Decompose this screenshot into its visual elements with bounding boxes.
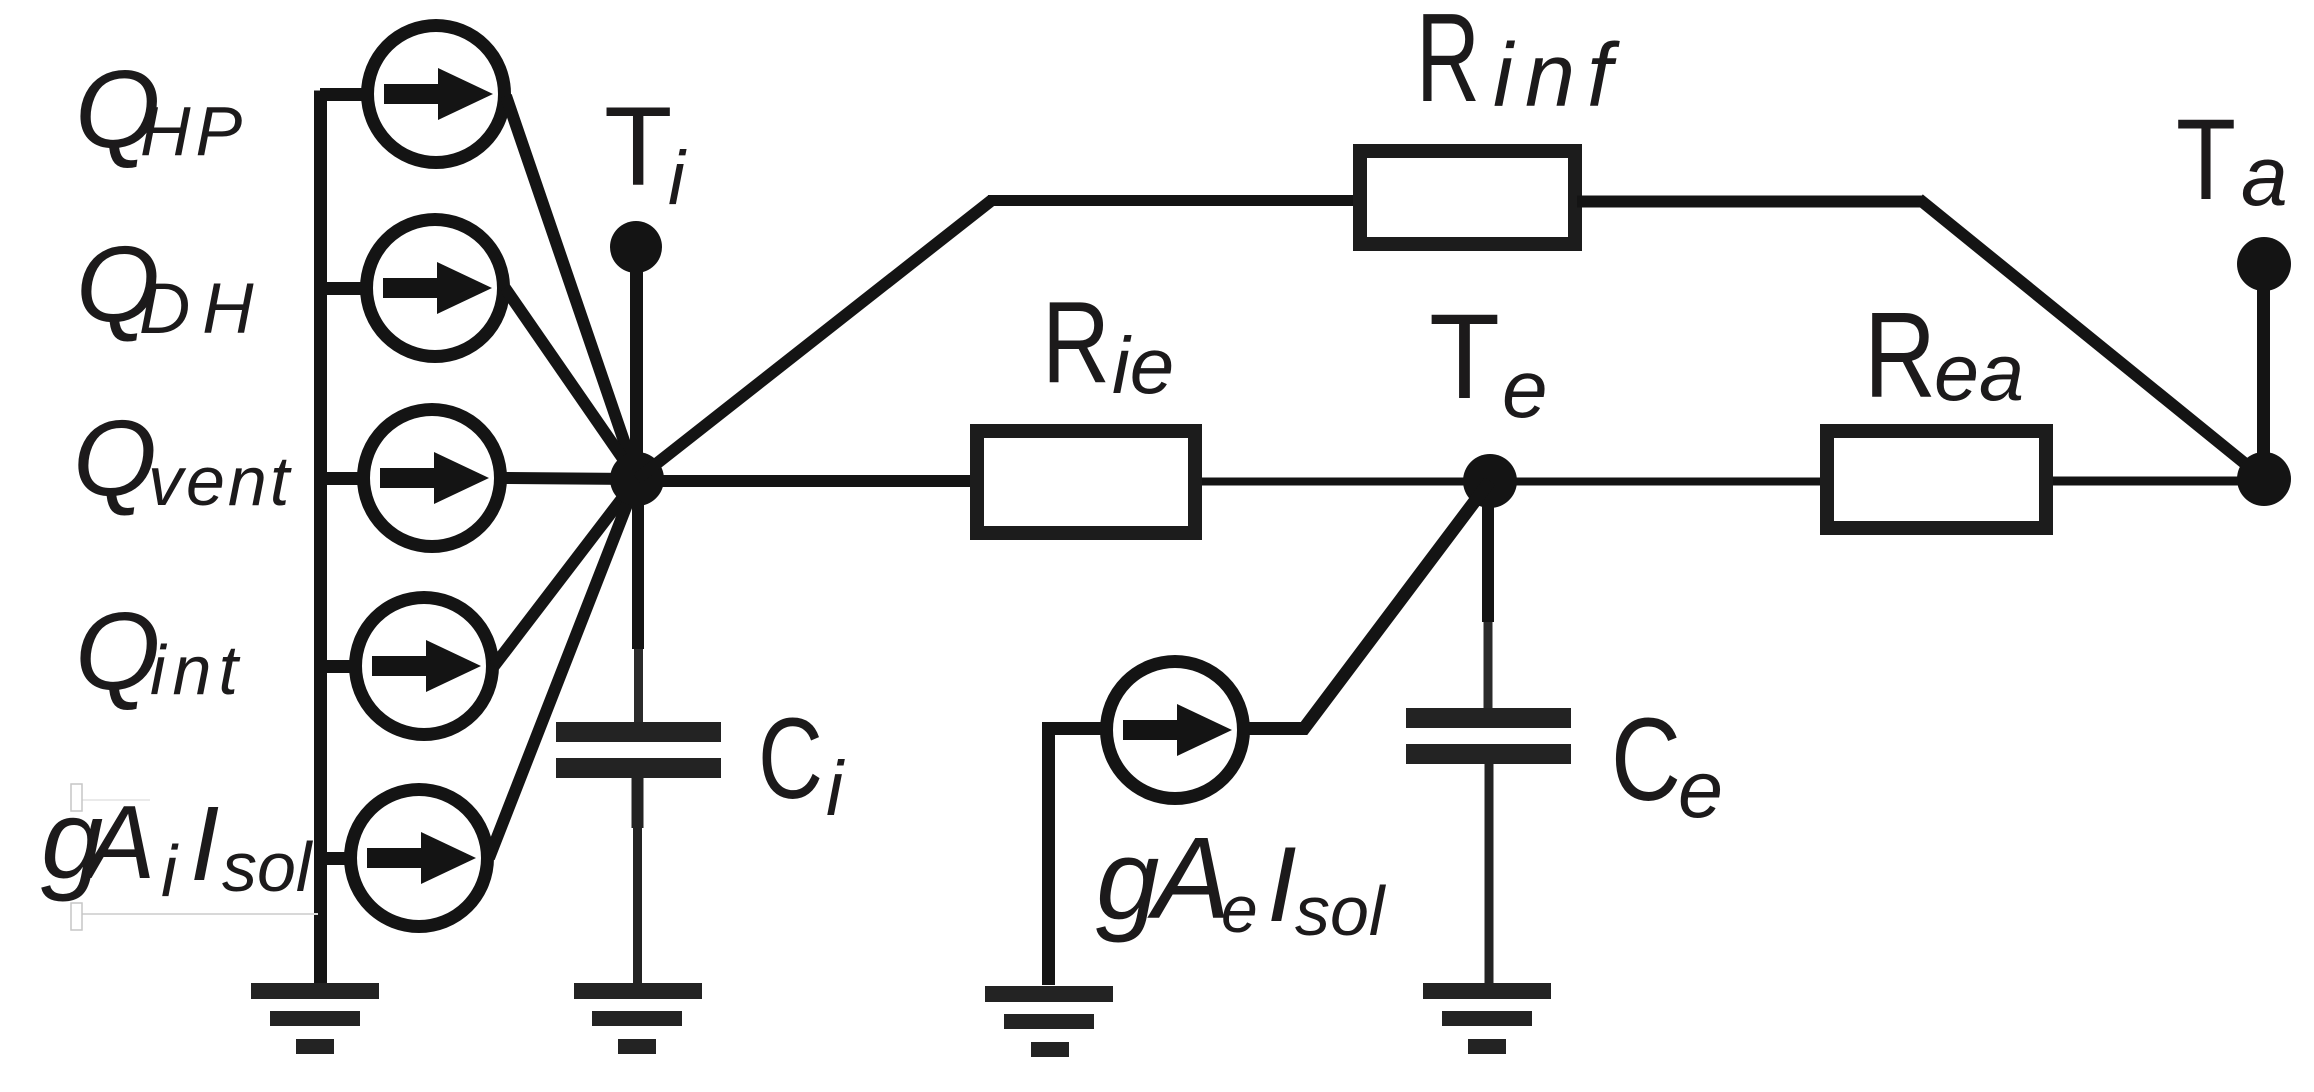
wire stub bus to Qvent source (320, 472, 366, 485)
current source Qint (356, 598, 493, 735)
svg-text:A: A (80, 785, 155, 901)
svg-text:T: T (1429, 288, 1500, 424)
current source QHP (368, 26, 505, 163)
svg-text:T: T (604, 84, 672, 209)
node Ti terminal (610, 221, 662, 273)
wire gAiIsol to node Ti (489, 479, 637, 858)
current source gAeIsol (1107, 662, 1244, 799)
wire Rie to node Te (1202, 478, 1470, 486)
wire Ti terminal to junction (630, 247, 643, 479)
label Ce (1611, 694, 1723, 835)
svg-text:I: I (1267, 824, 1297, 944)
label QHP (75, 48, 247, 171)
wire Ta terminal to junction (2257, 264, 2270, 479)
node Ta terminal (2237, 237, 2291, 291)
wire node Te down to Ce (1482, 481, 1494, 710)
wire ground riser to gAeIsol source (1049, 729, 1105, 986)
svg-text:e: e (1221, 872, 1258, 946)
svg-text:A: A (1147, 813, 1230, 943)
svg-text:Q: Q (75, 590, 161, 713)
label Qvent (73, 397, 292, 520)
ground (Ce) (1423, 983, 1551, 1054)
svg-text:C: C (1611, 694, 1681, 826)
resistor Rie (977, 431, 1195, 533)
svg-text:e: e (1678, 745, 1723, 835)
label Rinf (1416, 0, 1624, 128)
node Te (1463, 454, 1517, 508)
label QDH (76, 223, 266, 349)
svg-text:C: C (758, 695, 823, 823)
label gAeIsol (1096, 813, 1387, 950)
wire diagonal top right down to node Ta (1919, 199, 2264, 479)
label Rie (1042, 277, 1174, 410)
ground (gAeIsol) (985, 986, 1113, 1057)
svg-text:DH: DH (139, 270, 266, 349)
node Ti junction (610, 452, 664, 506)
wire diagonal node Ti to top run (637, 200, 992, 479)
svg-text:Q: Q (73, 397, 157, 518)
label gAiIsol (41, 777, 318, 930)
resistor Rinf (1360, 151, 1575, 244)
svg-text:T: T (2176, 96, 2236, 224)
wire node Ti to Rie (660, 475, 975, 487)
wire Qint to node Ti (494, 479, 637, 666)
svg-text:int: int (150, 631, 245, 709)
svg-text:i: i (161, 832, 179, 912)
ground (left bus) (251, 983, 379, 1054)
label Rea (1864, 287, 2024, 423)
wire gAeIsol output to node Te (1243, 481, 1490, 729)
capacitor Ce (1406, 708, 1571, 985)
svg-text:inf: inf (1493, 26, 1624, 126)
wire QDH to node Ti (505, 288, 637, 479)
svg-text:g: g (1096, 817, 1159, 944)
svg-text:sol: sol (1295, 872, 1387, 950)
wire QHP to node Ti (506, 96, 637, 479)
svg-text:e: e (1502, 344, 1548, 435)
current source Qvent (364, 410, 501, 547)
wire node Te to Rea (1510, 478, 1825, 486)
node Ta bottom junction (2237, 452, 2291, 506)
svg-text:R: R (1042, 277, 1110, 407)
svg-text:sol: sol (222, 828, 314, 906)
wire stub bus to QDH source (320, 282, 368, 295)
svg-text:ie: ie (1112, 321, 1174, 410)
wire stub bus to gAiIsol source (320, 852, 354, 865)
wire node Ti down to Ci (632, 479, 645, 724)
svg-text:R: R (1416, 0, 1480, 128)
wire Rinf to top right corner (1577, 196, 1924, 208)
wire Qvent to node Ti (502, 478, 637, 479)
wire stub bus to QHP source (320, 88, 368, 101)
current source QDH (367, 220, 504, 357)
current source gAiIsol (351, 790, 488, 927)
wire left bus vertical (314, 91, 327, 985)
svg-text:R: R (1864, 287, 1936, 423)
svg-text:i: i (668, 136, 687, 221)
svg-text:i: i (826, 746, 845, 832)
ground (Ci) (574, 983, 702, 1054)
capacitor Ci (556, 722, 721, 985)
resistor Rea (1827, 431, 2046, 528)
label Te (1429, 288, 1548, 435)
svg-text:HP: HP (140, 92, 247, 170)
label Qint (75, 590, 245, 713)
label Ta (2176, 96, 2288, 224)
wire top run left to Rinf (988, 195, 1358, 206)
svg-text:vent: vent (148, 442, 292, 520)
svg-text:ea: ea (1934, 328, 2024, 418)
label Ci (758, 695, 845, 832)
label Ti (604, 84, 687, 221)
wire stub bus to Qint source (320, 660, 358, 673)
wire Rea to node Ta (2053, 477, 2264, 486)
svg-text:a: a (2241, 129, 2288, 223)
svg-text:I: I (190, 785, 219, 903)
